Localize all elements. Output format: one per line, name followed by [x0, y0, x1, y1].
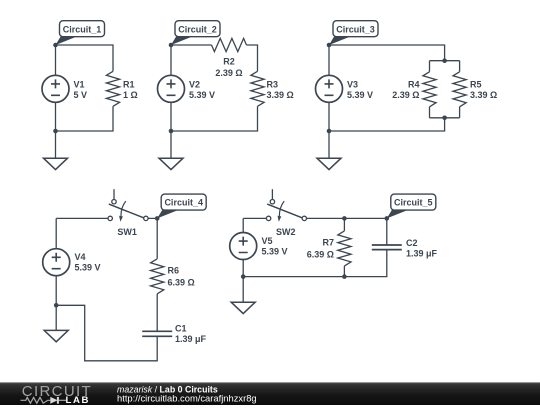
svg-text:V1: V1 — [74, 79, 85, 89]
svg-text:SW2: SW2 — [276, 227, 296, 237]
svg-text:5.39 V: 5.39 V — [189, 90, 215, 100]
svg-text:http://circuitlab.com/carafjnh: http://circuitlab.com/carafjnhzxr8g — [117, 393, 257, 404]
svg-text:Circuit_1: Circuit_1 — [63, 24, 102, 34]
svg-text:C2: C2 — [406, 238, 418, 248]
svg-text:5.39 V: 5.39 V — [262, 247, 288, 257]
svg-text:3.39 Ω: 3.39 Ω — [267, 90, 294, 100]
svg-text:Circuit_3: Circuit_3 — [336, 24, 375, 34]
svg-text:R1: R1 — [123, 79, 135, 89]
svg-text:2.39 Ω: 2.39 Ω — [215, 68, 242, 78]
svg-text:Circuit_4: Circuit_4 — [164, 198, 203, 208]
svg-text:R6: R6 — [168, 266, 180, 276]
svg-text:R3: R3 — [267, 79, 279, 89]
svg-text:3.39 Ω: 3.39 Ω — [470, 90, 497, 100]
svg-text:6.39 Ω: 6.39 Ω — [168, 277, 195, 287]
svg-text:R7: R7 — [322, 238, 334, 248]
svg-text:V5: V5 — [262, 236, 273, 246]
svg-text:SW1: SW1 — [117, 227, 137, 237]
svg-text:V2: V2 — [189, 79, 200, 89]
svg-text:R2: R2 — [223, 56, 235, 66]
svg-text:V4: V4 — [75, 252, 86, 262]
svg-text:LAB: LAB — [66, 395, 91, 405]
svg-text:5 V: 5 V — [74, 90, 88, 100]
svg-text:2.39 Ω: 2.39 Ω — [392, 90, 419, 100]
svg-text:V3: V3 — [347, 79, 358, 89]
svg-text:Circuit_2: Circuit_2 — [178, 24, 217, 34]
svg-text:6.39 Ω: 6.39 Ω — [307, 249, 334, 259]
svg-text:R4: R4 — [408, 79, 420, 89]
svg-text:5.39 V: 5.39 V — [347, 90, 373, 100]
svg-text:1.39 μF: 1.39 μF — [406, 249, 438, 259]
svg-text:Circuit_5: Circuit_5 — [394, 198, 433, 208]
svg-text:C1: C1 — [175, 324, 187, 334]
svg-text:1 Ω: 1 Ω — [123, 90, 138, 100]
svg-text:5.39 V: 5.39 V — [75, 263, 101, 273]
svg-text:R5: R5 — [470, 79, 482, 89]
svg-text:1.39 μF: 1.39 μF — [175, 334, 207, 344]
